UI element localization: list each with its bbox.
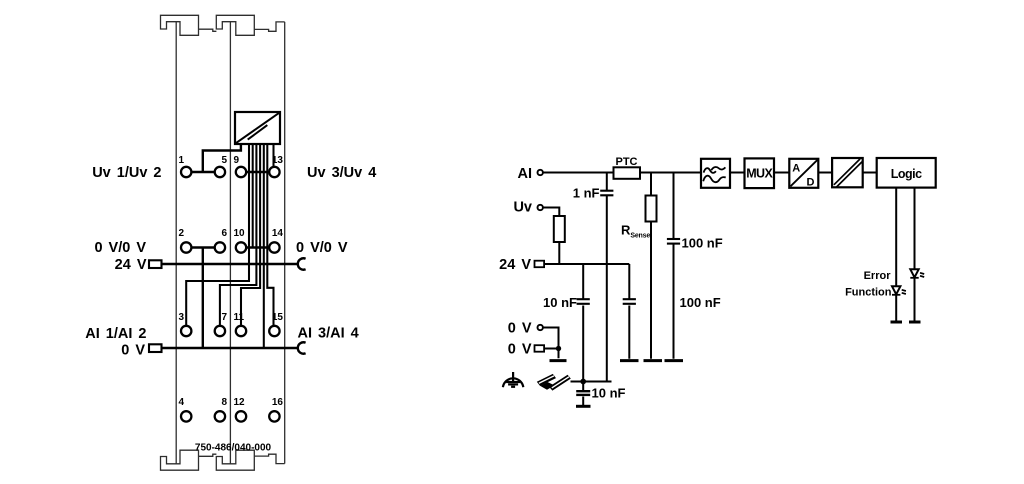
24V wire <box>543 263 629 265</box>
svg-text:D: D <box>807 177 815 189</box>
0V terminal square <box>149 344 162 352</box>
Uv series resistor <box>554 216 565 242</box>
module labels <box>85 165 376 358</box>
module right edge <box>284 22 286 464</box>
svg-text:PTC: PTC <box>616 156 638 168</box>
pin 15 contact <box>269 326 279 336</box>
ground bars <box>550 322 921 406</box>
0V terminal square schematic <box>535 345 545 352</box>
bundle wire to pin 11 <box>241 144 260 325</box>
10nF branch <box>582 264 584 382</box>
wire jog pins1/5 to converter <box>203 144 241 172</box>
ground bar 100nF-2 <box>620 359 639 362</box>
pin numbers <box>179 155 284 408</box>
wire MUX-A/D <box>774 172 789 174</box>
100nF branch wire <box>673 173 675 359</box>
schematic labels <box>499 166 532 358</box>
svg-text:2: 2 <box>179 228 185 239</box>
24V rail <box>161 263 299 265</box>
capacitor 10nF-2 plates <box>576 391 590 395</box>
svg-text:13: 13 <box>272 155 284 166</box>
svg-text:5: 5 <box>221 155 227 166</box>
filter box <box>701 159 730 188</box>
wire pins 10-14 <box>241 246 274 248</box>
10nF2 stem <box>582 382 584 406</box>
svg-text:Uv 1/Uv 2: Uv 1/Uv 2 <box>92 165 161 181</box>
wire converter to pin 13 <box>272 144 274 166</box>
Uv terminal <box>538 205 543 210</box>
24V rail hook to next module <box>298 258 306 269</box>
pin 8 contact <box>215 411 225 421</box>
svg-text:A: A <box>792 162 800 174</box>
pin 1 contact <box>181 167 191 177</box>
bundle wire to 10-14 wire <box>252 144 254 248</box>
logic drop left <box>895 188 897 322</box>
Uv wire <box>544 208 560 217</box>
capacitor 1nF plates <box>600 191 613 196</box>
0V2 wire <box>543 349 559 359</box>
bundle wire to 0V rail <box>263 144 265 348</box>
svg-text:0 V/0 V: 0 V/0 V <box>296 240 348 256</box>
chassis earth symbol <box>503 372 523 387</box>
ground link line <box>571 381 612 383</box>
wire A/D-ISO <box>818 172 832 174</box>
svg-text:Uv: Uv <box>513 199 532 215</box>
1nF branch wire <box>606 173 608 191</box>
24V terminal square schematic <box>535 261 545 268</box>
capacitor 100nF-2 plates <box>623 299 636 304</box>
capacitor 100nF plates <box>667 239 680 244</box>
svg-text:7: 7 <box>221 312 227 323</box>
svg-text:100 nF: 100 nF <box>680 295 721 310</box>
svg-text:1: 1 <box>179 155 185 166</box>
svg-text:RSense: RSense <box>621 223 650 240</box>
wire filter-MUX <box>730 172 745 174</box>
svg-text:10 nF: 10 nF <box>543 295 577 310</box>
pin 10 contact <box>236 242 246 252</box>
svg-text:8: 8 <box>221 397 227 408</box>
bundle wire to pin 3 <box>186 144 249 325</box>
svg-text:MUX: MUX <box>746 167 773 181</box>
junction dot 0V <box>556 346 561 351</box>
wire pins 1-5 <box>186 171 220 173</box>
bundle wires from converter <box>186 144 273 348</box>
0V1 wire <box>544 328 559 349</box>
module housing bottom connector notch right <box>254 454 284 463</box>
module housing bottom-left hook <box>161 450 199 470</box>
svg-text:Function: Function <box>845 287 892 299</box>
Logic block <box>877 158 936 188</box>
wire pins 2-6 <box>186 246 220 248</box>
module housing top connector notch right <box>254 22 284 31</box>
svg-text:Logic: Logic <box>891 167 922 181</box>
ground bar Rsense <box>644 359 663 362</box>
wire pins2/6 drop to 0V rail <box>202 248 204 349</box>
wires of module <box>161 144 299 348</box>
PTC resistor <box>614 167 641 179</box>
pin 16 contact <box>269 411 279 421</box>
svg-text:12: 12 <box>234 397 246 408</box>
pin 9 contact <box>236 167 246 177</box>
module housing top-right hook <box>216 15 254 35</box>
Uv resistor to 24V rail <box>558 242 560 264</box>
svg-text:0 V: 0 V <box>121 342 145 358</box>
R sense branch wire <box>650 173 652 359</box>
pin 11 contact <box>236 326 246 336</box>
pin 6 contact <box>215 242 225 252</box>
24V 100nF cap branch <box>628 264 630 359</box>
termination bar LED right <box>909 321 921 324</box>
DIN rail symbol <box>537 374 571 391</box>
svg-text:14: 14 <box>272 228 284 239</box>
svg-text:3: 3 <box>179 312 185 323</box>
svg-text:15: 15 <box>272 312 284 323</box>
module left edge <box>175 22 177 464</box>
bundle wire to pin 15 <box>267 144 273 325</box>
svg-text:4: 4 <box>179 397 185 408</box>
LED left <box>892 286 906 295</box>
isolation block <box>832 158 863 187</box>
logic drop right <box>914 188 916 322</box>
0V rail <box>161 347 299 349</box>
AI wire <box>544 172 702 174</box>
0V rail hook to next module <box>298 342 306 353</box>
svg-text:24 V: 24 V <box>115 257 147 273</box>
ground bar 0V <box>550 359 567 362</box>
svg-text:10: 10 <box>234 228 246 239</box>
svg-text:Error: Error <box>864 270 892 282</box>
svg-text:AI 1/AI 2: AI 1/AI 2 <box>85 326 146 342</box>
svg-text:0 V: 0 V <box>508 342 532 358</box>
module middle separator <box>229 22 231 464</box>
svg-text:AI 3/AI 4: AI 3/AI 4 <box>298 326 359 342</box>
bundle wire to pin 7 <box>220 144 257 325</box>
svg-text:AI: AI <box>518 166 533 182</box>
svg-text:100 nF: 100 nF <box>682 236 723 251</box>
module housing bottom connector notch left <box>199 454 217 456</box>
0V terminal circle <box>538 325 543 330</box>
svg-text:16: 16 <box>272 397 284 408</box>
svg-text:24 V: 24 V <box>499 257 531 273</box>
svg-text:9: 9 <box>234 155 240 166</box>
junction dot ground <box>580 379 586 385</box>
termination bar LED left <box>891 321 903 324</box>
svg-text:11: 11 <box>234 312 245 323</box>
module housing top connector notch left <box>199 29 217 31</box>
pin 7 contact <box>215 326 225 336</box>
ground bar 100nF <box>665 359 684 362</box>
pin 14 contact <box>269 242 279 252</box>
ground bar 10nF-2 <box>576 405 591 408</box>
AI terminal <box>538 170 543 175</box>
svg-text:10 nF: 10 nF <box>592 386 626 401</box>
svg-text:6: 6 <box>221 228 227 239</box>
R sense resistor <box>646 196 657 222</box>
LED right <box>910 269 924 278</box>
module housing bottom-right hook <box>216 450 254 470</box>
svg-text:0 V/0 V: 0 V/0 V <box>94 240 146 256</box>
pin 12 contact <box>236 411 246 421</box>
svg-text:1 nF: 1 nF <box>573 186 600 201</box>
24V terminal square <box>149 260 162 268</box>
pin 5 contact <box>215 167 225 177</box>
pin 4 contact <box>181 411 191 421</box>
pin 2 contact <box>181 242 191 252</box>
svg-text:0 V: 0 V <box>508 321 532 337</box>
capacitor 10nF plates <box>577 299 590 304</box>
MUX block <box>745 158 775 188</box>
module housing top-left hook <box>161 15 199 35</box>
wire ISO-Logic <box>863 172 877 174</box>
svg-text:750-486/040-000: 750-486/040-000 <box>195 443 272 454</box>
wire pins 9-13 <box>241 171 274 173</box>
converter box U1 <box>235 112 280 144</box>
pin 3 contact <box>181 326 191 336</box>
pin 13 contact <box>269 167 279 177</box>
svg-text:Uv 3/Uv 4: Uv 3/Uv 4 <box>307 165 376 181</box>
A/D converter block <box>789 159 818 189</box>
